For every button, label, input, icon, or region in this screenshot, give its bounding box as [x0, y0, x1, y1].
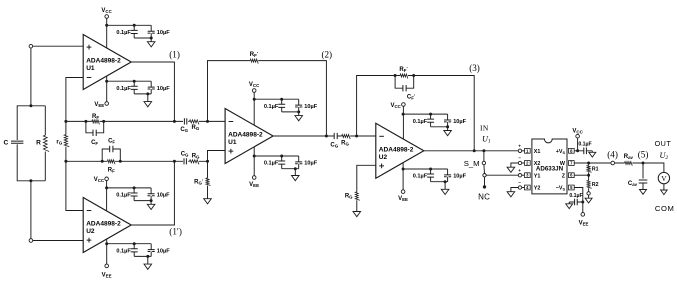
node (4) terminal [611, 161, 615, 165]
resistor Rav [615, 154, 644, 166]
svg-text:−: − [518, 156, 521, 161]
node junction (5) [642, 162, 645, 165]
svg-text:VEE: VEE [579, 220, 589, 226]
svg-text:COM: COM [655, 204, 675, 213]
wire U2 output to node (1') [131, 161, 174, 225]
terminal circle pin 4 [518, 180, 524, 189]
svg-text:C: C [4, 139, 9, 146]
switch S_M terminal top [482, 161, 485, 164]
wire row3 [326, 135, 375, 137]
pin 1 X1 box [525, 148, 531, 153]
capacitor Cav [628, 163, 647, 190]
node junction row1/feedback riser [206, 120, 209, 123]
node junction bottom of C/R [29, 179, 32, 182]
svg-text:10µF: 10µF [304, 161, 317, 167]
wire feedback to node (3) [414, 76, 475, 151]
ground (pin5 cap) [566, 202, 573, 209]
Vcc terminal U1 [101, 8, 112, 18]
node Y terminal (bottom input) [29, 239, 33, 243]
pin 4 Y2 box [525, 185, 531, 190]
svg-text:VCC: VCC [390, 103, 401, 109]
node junction row2 [206, 160, 209, 163]
resistor RF (U1 feedback) [92, 114, 100, 124]
node junction RF left (row2) [101, 160, 104, 163]
node (1) junction [173, 120, 176, 123]
svg-text:0.1µF: 0.1µF [264, 104, 279, 110]
wire [30, 48, 32, 106]
svg-text:Cav: Cav [628, 181, 638, 187]
svg-text:10µF: 10µF [157, 193, 170, 199]
svg-text:Rav: Rav [624, 154, 634, 160]
svg-text:(1′): (1′) [169, 226, 182, 236]
node junction row2 left [64, 160, 67, 163]
op-amp U2a [83, 198, 131, 253]
wire Vee stem [253, 147, 255, 176]
resistor RG' to ground [194, 161, 210, 198]
node junction RF left (row1) [84, 120, 87, 123]
svg-text:CF: CF [91, 140, 98, 146]
wire to voltmeter [643, 163, 664, 172]
resistor RG (row3) [341, 135, 350, 147]
wire to NC dot [484, 177, 486, 187]
capacitor 0.1uF (pin5) [569, 193, 583, 205]
svg-text:rG: rG [56, 138, 62, 145]
node (1') junction [173, 160, 176, 163]
multiplier U3 AD633JN body [532, 139, 567, 194]
svg-text:ADA4898-2: ADA4898-2 [379, 146, 414, 153]
wire + input riser stage2 [208, 151, 226, 162]
svg-text:VEE: VEE [249, 182, 259, 188]
svg-text:(4): (4) [607, 149, 618, 159]
capacitor C [4, 139, 24, 146]
svg-text:0.1µF: 0.1µF [569, 193, 582, 199]
resistor rG [56, 135, 69, 147]
wire stage2 output [273, 135, 326, 137]
svg-text:10µF: 10µF [157, 30, 170, 36]
resistor RG (stage3 + to ground) [345, 192, 360, 212]
node junction (2) [325, 135, 328, 138]
svg-text:VCC: VCC [249, 82, 260, 88]
switch S_M blade [483, 165, 486, 174]
svg-text:10µF: 10µF [453, 119, 466, 125]
svg-text:CG: CG [181, 151, 189, 157]
pin 8 box [569, 148, 575, 153]
ground (COM) [661, 190, 668, 195]
node junction pin8/Vcc [576, 149, 579, 152]
svg-text:(3): (3) [469, 63, 480, 73]
wire U2 - input [66, 161, 83, 210]
op-amp U1b [225, 109, 273, 164]
svg-text:−VS: −VS [556, 186, 566, 192]
svg-text:Y2: Y2 [534, 186, 541, 192]
svg-text:CG: CG [330, 142, 338, 148]
op-amp U1a [83, 35, 131, 90]
wire [30, 181, 32, 239]
svg-text:0.1µF: 0.1µF [116, 30, 131, 36]
svg-text:VCC: VCC [94, 177, 105, 183]
svg-text:Y1: Y1 [534, 173, 541, 179]
Vcc terminal AD633 [572, 128, 583, 138]
svg-text:RG: RG [345, 194, 353, 200]
svg-text:0.1µF: 0.1µF [116, 86, 131, 92]
svg-text:VCC: VCC [101, 8, 112, 14]
svg-text:ADA4898-2: ADA4898-2 [86, 221, 121, 228]
resistor RF' (stage2 feedback) [250, 51, 259, 64]
svg-text:VEE: VEE [102, 272, 112, 278]
wire feedback riser stage3 [357, 76, 396, 137]
node junction RF right (row1) [102, 120, 105, 123]
svg-text:ADA4898-2: ADA4898-2 [228, 132, 263, 139]
svg-text:+: + [518, 143, 521, 148]
voltmeter V [658, 172, 669, 183]
wire Vcc stem [106, 181, 108, 211]
ground (pin8 cap) [589, 151, 596, 157]
wire Vcc stem [402, 106, 404, 139]
Vcc terminal stage2 [249, 82, 260, 92]
wire Vcc stem [106, 18, 108, 48]
svg-text:RG: RG [192, 154, 200, 160]
svg-text:U2: U2 [86, 228, 95, 235]
svg-text:V: V [661, 174, 667, 183]
svg-text:10µF: 10µF [453, 174, 466, 180]
wire U1 - input [66, 78, 83, 122]
node junction row1 left [64, 120, 67, 123]
resistor RG (row1) [190, 120, 200, 131]
svg-text:+: + [518, 168, 521, 173]
ground (Y2) [507, 188, 518, 197]
resistor R1 [587, 163, 599, 175]
svg-text:10µF: 10µF [157, 248, 170, 254]
capacitor CG (row1) [180, 118, 188, 133]
wire row2 [66, 160, 208, 162]
svg-text:0.1µF: 0.1µF [413, 119, 428, 125]
wire U1 + input [33, 45, 83, 47]
resistor R [36, 135, 49, 151]
decoupling capacitors 0.1uF and 10uF (stage3 Vcc) [402, 113, 467, 136]
wire pin5 to Vee [574, 188, 583, 213]
svg-text:+VS: +VS [556, 149, 566, 155]
svg-text:U1: U1 [86, 65, 95, 72]
svg-text:RG: RG [341, 140, 349, 146]
resistor RG (row2) [190, 154, 201, 165]
svg-text:(2): (2) [321, 50, 332, 60]
node junction RF right (row2) [119, 160, 122, 163]
wire voltmeter to ground [663, 184, 665, 190]
svg-text:0.1µF: 0.1µF [116, 193, 131, 199]
Vcc terminal U2 [94, 177, 109, 183]
pin 6 box [569, 173, 575, 178]
ground (stage3 RG) [353, 212, 361, 217]
wire to U2 + input [33, 240, 83, 242]
capacitor 0.1uF (pin8) [578, 142, 593, 155]
svg-text:ADA4898-2: ADA4898-2 [86, 58, 121, 65]
capacitor CF' parallel loop (stage3) [395, 76, 416, 101]
pin 5 box [569, 185, 575, 190]
svg-text:R: R [36, 140, 41, 147]
decoupling capacitors 0.1uF and 10uF (U2 Vee) [105, 242, 170, 269]
wire Vee stem [402, 163, 404, 190]
wire feedback riser stage2 [208, 61, 251, 122]
Vee terminal AD633 [579, 213, 589, 227]
wire Vcc stem [253, 92, 255, 125]
svg-text:10µF: 10µF [304, 104, 317, 110]
svg-text:0.1µF: 0.1µF [116, 248, 131, 254]
wire W output [574, 162, 611, 164]
svg-text:IN: IN [480, 124, 489, 133]
Vee terminal U2 [102, 264, 112, 278]
switch S_M terminal bottom [483, 174, 486, 177]
wire feedback to node (2) [258, 61, 326, 136]
terminal circle pin 3 [518, 168, 524, 177]
pin 7 box [569, 161, 575, 166]
svg-text:U1: U1 [228, 139, 237, 146]
svg-text:CF: CF [108, 139, 115, 145]
svg-text:−: − [518, 180, 521, 185]
node junction row3/feedback riser [355, 135, 358, 138]
wire [17, 106, 45, 181]
svg-text:0.1µF: 0.1µF [413, 174, 428, 180]
wire Vee stem [106, 76, 108, 102]
svg-text:(1): (1) [169, 49, 180, 59]
ground (Cav) [640, 190, 647, 195]
svg-text:OUT: OUT [655, 139, 672, 148]
svg-text:0.1µF: 0.1µF [264, 161, 279, 167]
svg-text:S_M: S_M [464, 159, 480, 168]
svg-text:U2: U2 [379, 154, 388, 161]
Vee terminal stage3 [398, 190, 408, 202]
decoupling capacitors 0.1uF and 10uF (U1 Vcc) [105, 24, 170, 47]
svg-text:X1: X1 [534, 149, 541, 155]
terminal circle (R2 ground) [587, 192, 590, 195]
terminal circle pin 2 [518, 156, 524, 165]
node junction (3) [473, 149, 476, 152]
svg-text:RG: RG [192, 125, 200, 131]
resistor RF' (stage3 feedback) [395, 66, 414, 79]
resistor RF (U2 feedback) [107, 160, 115, 174]
svg-text:RF: RF [108, 168, 115, 174]
node junction top of C/R [29, 104, 32, 107]
node junction RF' right (stage3) [412, 74, 415, 77]
node junction pin5/Vee [581, 201, 584, 204]
capacitor CF parallel loop (U2) [102, 139, 120, 162]
capacitor CG (row2) [181, 151, 189, 164]
svg-text:R2: R2 [592, 182, 599, 188]
wire pin6 Z [574, 174, 588, 176]
wire rG column [65, 121, 67, 161]
decoupling capacitors 0.1uF and 10uF (stage2 Vcc) [253, 98, 318, 121]
decoupling capacitors 0.1uF and 10uF (stage3 Vee) [402, 168, 467, 195]
wire row1 [66, 120, 225, 122]
ground (R2) [585, 195, 592, 203]
wire stage3 output / IN node [424, 150, 518, 152]
svg-text:VEE: VEE [94, 102, 104, 108]
ground (X2) [507, 163, 518, 172]
svg-text:0.1µF: 0.1µF [578, 142, 591, 148]
wire S_M riser [483, 151, 485, 161]
NC dead-end dot [483, 185, 486, 188]
svg-text:NC: NC [478, 193, 490, 202]
decoupling capacitors 0.1uF and 10uF (U2 Vcc) [105, 186, 170, 209]
op-amp U2b [376, 123, 424, 178]
resistor R2 [587, 175, 599, 192]
Vee terminal U1 [94, 102, 108, 108]
wire switch to Y1 [486, 174, 518, 176]
node X terminal (top input) [29, 44, 33, 48]
svg-text:10µF: 10µF [157, 86, 170, 92]
svg-text:R1: R1 [592, 166, 599, 172]
node junction R1/W [587, 162, 590, 165]
wire Vee stem [106, 239, 108, 264]
svg-text:RF: RF [92, 114, 99, 120]
node junction S_M tap [482, 149, 485, 152]
ground (RG') [204, 199, 212, 204]
svg-text:(5): (5) [638, 149, 649, 159]
decoupling capacitors 0.1uF and 10uF (U1 Vee) [105, 80, 170, 107]
capacitor CF parallel loop (U1) [86, 121, 104, 146]
Vcc terminal stage3 [390, 103, 405, 109]
Vee terminal stage2 [249, 176, 259, 188]
node junction Z/R1/R2 [587, 174, 590, 177]
terminal circle pin 1 [518, 143, 524, 152]
node junction RF' left (stage3) [394, 74, 397, 77]
wire U1 output to node (1) [131, 62, 174, 121]
pin 2 X2 box [525, 161, 531, 166]
pin 3 Y1 box [525, 173, 531, 178]
wire pin8 to Vcc [574, 138, 577, 151]
svg-text:VEE: VEE [398, 196, 408, 202]
decoupling capacitors 0.1uF and 10uF (stage2 Vee) [253, 155, 318, 181]
svg-text:VCC: VCC [572, 128, 583, 134]
capacitor CG (row3) [330, 133, 338, 149]
svg-text:X2: X2 [534, 161, 541, 167]
svg-text:CG: CG [180, 127, 188, 133]
wire + input stage3 [357, 165, 376, 192]
